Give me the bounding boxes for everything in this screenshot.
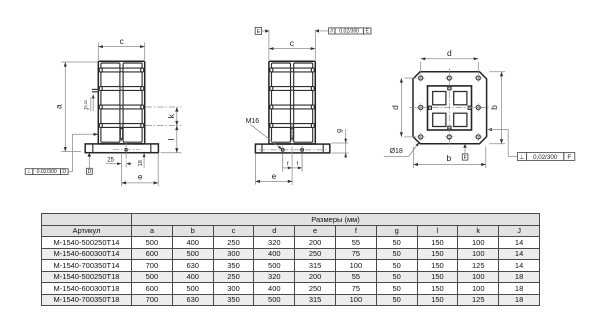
svg-text:F: F (567, 154, 571, 161)
svg-text:c: c (120, 36, 125, 46)
svg-text:a: a (53, 104, 63, 109)
datum D symbol (87, 153, 91, 157)
centre extension line (front) (121, 153, 123, 186)
svg-text:e: e (272, 171, 277, 181)
centre-line stubs k/l (front) (146, 106, 182, 108)
svg-text:c: c (290, 38, 295, 48)
parallelism callout 0,02/300 E (315, 29, 319, 32)
datum E symbol (255, 27, 261, 34)
front view panels (101, 63, 120, 68)
dimension c (front) (97, 42, 99, 60)
front view flange hole (125, 148, 128, 151)
perpendicularity callout 0,02/300 F (487, 128, 492, 131)
datum F symbol (463, 144, 467, 147)
svg-text:0,02/300: 0,02/300 (533, 154, 558, 161)
top view plate outline (413, 72, 487, 144)
svg-text:⊥: ⊥ (27, 169, 32, 175)
side view panels (272, 63, 291, 68)
side view centre extension line (291, 153, 293, 185)
dimension a (61, 61, 97, 63)
svg-text:g: g (336, 129, 343, 133)
dimension e (front) (157, 153, 159, 186)
top view column cross-section (428, 86, 472, 130)
dimensions table (41, 213, 540, 306)
side view M16 blind hole (291, 127, 293, 140)
dimension e (side) (254, 153, 256, 184)
svg-text:Ø18: Ø18 (390, 148, 403, 155)
svg-text:b: b (447, 153, 452, 163)
svg-text:0,02/300: 0,02/300 (339, 29, 359, 35)
front view T-slot knobs (99, 68, 102, 72)
dimension d (top, vertical left) (404, 77, 416, 79)
svg-text:⊥: ⊥ (519, 154, 524, 161)
top view centre lines (448, 68, 450, 147)
svg-text:b: b (489, 105, 499, 110)
dimension d (top, horizontal) (420, 62, 422, 74)
svg-text:l: l (166, 138, 176, 140)
svg-text:J0,02: J0,02 (84, 100, 91, 110)
svg-text:0.02/300: 0.02/300 (37, 169, 57, 175)
dimension 18 (143, 153, 145, 168)
side view body outline (269, 61, 315, 144)
front view body outline (98, 61, 144, 144)
dimension b (top, horizontal bottom) (412, 147, 414, 168)
side view base flange (255, 144, 329, 153)
dimension c (side) (268, 30, 270, 60)
front view M16 blind hole (120, 127, 122, 140)
svg-text:e: e (138, 171, 143, 181)
perpendicularity callout 0.02/300 D (25, 169, 33, 175)
top view mounting holes (419, 76, 423, 80)
top view T-slot squares (433, 92, 446, 105)
svg-text:D: D (62, 169, 66, 175)
dimension b (top, vertical right) (489, 71, 505, 73)
svg-text:M16: M16 (246, 118, 260, 125)
dimension g (332, 142, 349, 144)
side view flange holes (281, 149, 284, 152)
svg-text:k: k (166, 113, 176, 118)
svg-text:F: F (464, 155, 467, 161)
top view slot openings (448, 87, 451, 90)
front view base flange (85, 144, 158, 153)
dimension 25 (106, 163, 121, 165)
svg-text:d: d (447, 48, 452, 58)
svg-text:25: 25 (107, 158, 114, 164)
side view T-slot knobs (270, 68, 273, 72)
svg-text:E: E (257, 29, 261, 35)
dimension k (176, 107, 178, 126)
svg-text:E: E (365, 29, 369, 35)
svg-text:18: 18 (138, 160, 144, 166)
svg-text:D: D (88, 169, 92, 175)
dimension f f (282, 153, 284, 171)
dimension l (176, 126, 178, 153)
svg-text:d: d (390, 105, 400, 110)
